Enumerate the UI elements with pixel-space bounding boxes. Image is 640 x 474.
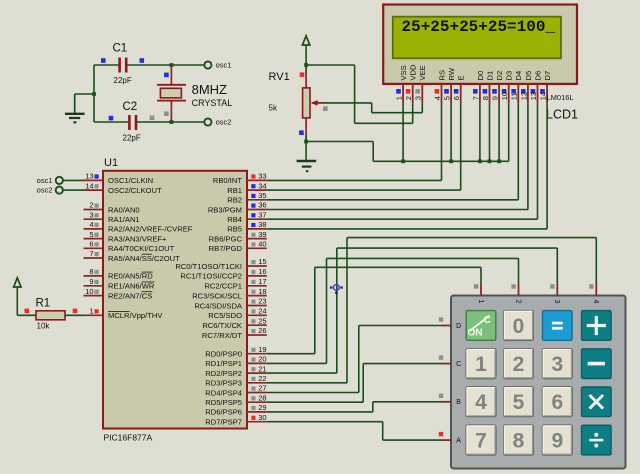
svg-text:RC6/TX/CK: RC6/TX/CK	[202, 321, 242, 330]
wire from LCD pin 14	[546, 104, 548, 229]
wire R1 to U1 pin 1 MCLR	[65, 314, 84, 316]
LCD pin 1 VSS	[395, 65, 409, 104]
svg-text:VEE: VEE	[418, 65, 427, 80]
U1 pin 36 RB3/PGM	[208, 201, 267, 215]
wire keypad col 2 to RD1	[267, 258, 519, 363]
node C1/C2 ground junction	[92, 92, 96, 96]
svg-text:D2: D2	[495, 71, 504, 81]
U1 pin 16 RC1/T1OSI/CCP2	[180, 267, 266, 281]
svg-text:B: B	[456, 399, 461, 406]
wire LCD D7 to RB5	[267, 228, 547, 230]
U1 pin 4 RA2/AN2/VREF-/CVREF	[84, 220, 193, 234]
svg-text:40: 40	[258, 240, 266, 249]
svg-text:RC4/SDI/SDA: RC4/SDI/SDA	[194, 301, 243, 310]
svg-text:15: 15	[258, 257, 266, 266]
U1 pin 7 RA5/AN4/SS/C2OUT	[84, 249, 181, 263]
U1 pin 39 RB6/PGC	[209, 230, 267, 244]
svg-text:3: 3	[89, 210, 93, 219]
svg-text:9: 9	[89, 277, 93, 286]
svg-text:LCD1: LCD1	[546, 108, 578, 122]
svg-text:5k: 5k	[269, 104, 278, 113]
wire LCD D4 to RB2	[267, 199, 519, 201]
U1 pin 13 OSC1/CLKIN	[84, 172, 154, 186]
node RV1 top junction	[304, 63, 308, 67]
svg-text:2: 2	[513, 353, 525, 376]
U1 pin 29 RD6/PSP6	[205, 403, 267, 417]
wire from LCD pin 6	[460, 104, 462, 190]
wire keypad col 1 to RD0	[267, 267, 481, 353]
svg-text:osc1: osc1	[37, 176, 53, 185]
svg-text:RB3/PGM: RB3/PGM	[208, 205, 242, 214]
svg-text:ON: ON	[468, 328, 483, 339]
power symbol +5V above RV1	[302, 36, 309, 65]
U1 pin 3 RA1/AN1	[84, 210, 140, 224]
svg-text:D6: D6	[533, 71, 542, 81]
wire from LCD pin 1	[402, 104, 404, 162]
U1 pin 6 RA4/T0CKI/C1OUT	[84, 240, 175, 254]
svg-text:R1: R1	[36, 298, 51, 310]
U1 pin 22 RD3/PSP3	[205, 374, 267, 388]
wire C1 left to junction	[94, 65, 119, 122]
svg-text:21: 21	[258, 364, 266, 373]
svg-text:7: 7	[475, 430, 487, 453]
U1 pin 23 RC4/SDI/SDA	[194, 297, 266, 311]
keypad panel	[451, 296, 626, 469]
svg-text:4: 4	[89, 220, 93, 229]
svg-text:RE2/AN7/CS: RE2/AN7/CS	[108, 291, 152, 300]
LCD pin 5 RW	[443, 67, 457, 104]
origin crosshair marker	[330, 285, 343, 294]
svg-text:C1: C1	[113, 43, 128, 55]
svg-text:27: 27	[258, 384, 266, 393]
U1 pin 38 RB5	[227, 220, 267, 234]
svg-text:24: 24	[258, 307, 266, 316]
crystal X1 8MHZ	[157, 65, 232, 122]
U1 pin 18 RC3/SCK/SCL	[192, 287, 267, 301]
wire from LCD pin 2	[412, 104, 414, 124]
U1 pin 37 RB4	[227, 210, 267, 224]
wire C2 right to osc2 terminal	[137, 121, 204, 123]
svg-text:4: 4	[475, 391, 487, 414]
U1 pin 26 RC7/RX/DT	[202, 326, 267, 340]
LCD pin 2 VDD	[404, 64, 418, 104]
svg-text:17: 17	[258, 277, 266, 286]
svg-text:37: 37	[258, 210, 266, 219]
U1 pin 5 RA3/AN3/VREF+	[84, 230, 168, 244]
svg-text:D4: D4	[514, 71, 523, 81]
keypad button 5	[504, 387, 534, 417]
svg-text:8: 8	[89, 267, 93, 276]
svg-text:0: 0	[513, 315, 525, 338]
svg-text:13: 13	[529, 92, 538, 100]
svg-text:PIC16F877A: PIC16F877A	[104, 433, 153, 443]
U1 pin 8 RE0/AN5/RD	[84, 267, 154, 281]
U1 pin 2 RA0/AN0	[84, 201, 140, 215]
svg-text:RW: RW	[447, 67, 456, 80]
svg-text:C: C	[456, 361, 461, 368]
keypad button ON/C	[466, 311, 496, 341]
svg-text:38: 38	[258, 220, 266, 229]
U1 pin 15 RC0/T1OSO/T1CKI	[175, 257, 266, 271]
svg-text:6: 6	[551, 391, 563, 414]
svg-text:osc2: osc2	[37, 186, 53, 195]
wire from LCD pin 8	[489, 104, 491, 162]
svg-text:11: 11	[510, 93, 519, 101]
wire keypad row A to RD7	[267, 422, 442, 440]
svg-text:10k: 10k	[37, 322, 51, 331]
keypad button 7	[466, 425, 496, 455]
keypad button 8	[504, 425, 534, 455]
wire keypad col 3 to RD2	[267, 248, 558, 373]
svg-text:RB6/PGC: RB6/PGC	[209, 234, 243, 243]
svg-text:RA5/AN4/SS/C2OUT: RA5/AN4/SS/C2OUT	[108, 254, 180, 263]
svg-text:13: 13	[85, 172, 93, 181]
svg-text:39: 39	[258, 230, 266, 239]
svg-text:29: 29	[258, 403, 266, 412]
svg-text:RC0/T1OSO/T1CKI: RC0/T1OSO/T1CKI	[175, 262, 242, 271]
svg-text:28: 28	[258, 393, 266, 402]
svg-text:5: 5	[443, 96, 452, 100]
LCD pin 7 D0	[471, 71, 485, 104]
svg-text:1: 1	[89, 307, 93, 316]
capacitor C1	[101, 43, 144, 86]
ground	[65, 94, 94, 122]
terminal osc2 (chip side)	[37, 186, 63, 195]
svg-text:2: 2	[89, 201, 93, 210]
svg-text:RD2/PSP2: RD2/PSP2	[205, 369, 242, 378]
keypad column pin 1	[474, 284, 484, 304]
capacitor C2	[109, 101, 155, 143]
svg-text:23: 23	[258, 297, 266, 306]
svg-text:RD1/PSP1: RD1/PSP1	[205, 359, 242, 368]
keypad button 3	[543, 349, 573, 379]
U1 pin 27 RD4/PSP4	[205, 384, 267, 398]
svg-text:36: 36	[258, 201, 266, 210]
svg-text:RS: RS	[437, 70, 446, 81]
svg-text:9: 9	[551, 430, 563, 453]
wire keypad col 4 to RD3	[267, 238, 597, 383]
svg-text:OSC2/CLKOUT: OSC2/CLKOUT	[108, 186, 162, 195]
keypad button 4	[466, 387, 496, 417]
svg-text:osc1: osc1	[216, 61, 232, 70]
svg-text:C2: C2	[123, 101, 138, 113]
svg-text:osc2: osc2	[216, 118, 232, 127]
svg-text:RE1/AN6/WR: RE1/AN6/WR	[108, 282, 155, 291]
svg-text:RC7/RX/DT: RC7/RX/DT	[202, 331, 242, 340]
svg-text:D3: D3	[505, 71, 514, 81]
LCD pin 12 D5	[519, 71, 533, 104]
svg-text:RA0/AN0: RA0/AN0	[108, 205, 140, 214]
U1 pin 25 RC6/TX/CK	[202, 316, 266, 330]
svg-text:C: C	[484, 315, 491, 326]
terminal osc2 (crystal side)	[204, 118, 231, 127]
wire C2 left	[94, 121, 129, 123]
U1 pin 28 RD5/PSP5	[205, 393, 267, 407]
U1 pin 17 RC2/CCP1	[204, 277, 266, 291]
U1 pin 14 OSC2/CLKOUT	[84, 181, 162, 195]
keypad button 6	[543, 387, 573, 417]
svg-text:8: 8	[513, 430, 525, 453]
ground under RV1	[297, 142, 317, 172]
svg-text:16: 16	[258, 267, 266, 276]
wire LCD D5 to RB3	[267, 209, 528, 211]
svg-text:10: 10	[85, 287, 93, 296]
svg-text:25+25+25+25=100_: 25+25+25+25=100_	[402, 18, 556, 36]
U1 pin 9 RE1/AN6/WR	[84, 277, 155, 291]
LCD pin 9 D2	[491, 71, 505, 104]
node crystal top junction	[170, 63, 174, 67]
resistor R1 10k	[25, 298, 78, 331]
wire keypad row D to RD4	[267, 326, 442, 393]
svg-text:RC3/SCK/SCL: RC3/SCK/SCL	[192, 291, 242, 300]
svg-text:18: 18	[258, 287, 266, 296]
svg-text:U1: U1	[104, 157, 118, 169]
svg-text:RD6/PSP6: RD6/PSP6	[205, 408, 242, 417]
power symbol +5V above R1	[14, 278, 21, 316]
svg-text:33: 33	[258, 172, 266, 181]
keypad button ×	[582, 387, 612, 417]
svg-text:CRYSTAL: CRYSTAL	[192, 98, 233, 108]
svg-text:RE0/AN5/RD: RE0/AN5/RD	[108, 272, 153, 281]
wire keypad row C to RD5	[267, 364, 442, 403]
LCD pin 11 D4	[510, 71, 524, 104]
svg-text:2: 2	[404, 96, 413, 100]
LCD LCD1 LM016L body	[383, 5, 577, 84]
svg-text:RA1/AN1: RA1/AN1	[108, 215, 140, 224]
wire osc2 terminal to U1 pin 14	[63, 189, 84, 191]
svg-text:9: 9	[491, 96, 500, 100]
U1 pin 40 RB7/PGD	[209, 240, 267, 254]
keypad button -	[582, 349, 612, 379]
svg-text:2: 2	[514, 300, 521, 304]
svg-text:D5: D5	[524, 71, 533, 81]
node RW bus junction	[449, 159, 453, 163]
svg-text:6: 6	[89, 240, 93, 249]
LCD screen	[393, 17, 561, 59]
keypad row pin A	[439, 432, 461, 445]
svg-text:RB2: RB2	[227, 196, 242, 205]
svg-text:22: 22	[258, 374, 266, 383]
wire from LCD pin 4	[441, 104, 443, 181]
keypad button 0	[504, 311, 534, 341]
svg-text:RA2/AN2/VREF-/CVREF: RA2/AN2/VREF-/CVREF	[108, 225, 193, 234]
svg-text:3: 3	[551, 353, 563, 376]
svg-text:1: 1	[475, 353, 487, 376]
svg-text:1: 1	[477, 300, 484, 304]
keypad button ÷	[582, 425, 612, 455]
keypad row pin D	[439, 317, 461, 330]
keypad button =	[543, 311, 573, 341]
svg-text:RD7/PSP7: RD7/PSP7	[205, 418, 242, 427]
svg-text:A: A	[456, 438, 461, 445]
wire C1 right to osc1 terminal	[127, 64, 204, 66]
svg-text:RA3/AN3/VREF+: RA3/AN3/VREF+	[108, 234, 167, 243]
svg-text:8: 8	[481, 96, 490, 100]
svg-text:LM016L: LM016L	[547, 93, 574, 102]
potentiometer RV1 5k	[269, 65, 328, 142]
LCD pin 10 D3	[500, 71, 513, 104]
keypad button +	[582, 311, 612, 341]
svg-text:D7: D7	[543, 71, 552, 81]
svg-text:VSS: VSS	[399, 65, 408, 80]
node D2 bus junction	[497, 159, 501, 163]
wire keypad row B to RD6	[267, 402, 442, 412]
node RV1 bottom junction	[304, 140, 308, 144]
svg-text:RD4/PSP4: RD4/PSP4	[205, 388, 242, 397]
svg-text:RB0/INT: RB0/INT	[213, 176, 242, 185]
keypad button 2	[504, 349, 534, 379]
wire from LCD pin 9	[498, 104, 500, 162]
svg-text:RA4/T0CKI/C1OUT: RA4/T0CKI/C1OUT	[108, 244, 175, 253]
LCD pin 14 D7	[539, 71, 553, 104]
keypad row pin C	[439, 355, 461, 368]
svg-text:D1: D1	[485, 71, 494, 81]
svg-text:RD0/PSP0: RD0/PSP0	[205, 350, 242, 359]
svg-text:RD5/PSP5: RD5/PSP5	[205, 398, 242, 407]
wire from LCD pin 13	[537, 104, 539, 219]
svg-text:5: 5	[89, 230, 93, 239]
svg-text:7: 7	[89, 249, 93, 258]
U1 pin 20 RD1/PSP1	[205, 355, 267, 369]
svg-text:22pF: 22pF	[114, 76, 132, 85]
node VSS bus junction	[401, 159, 405, 163]
LCD pin 4 RS	[433, 70, 447, 104]
wire ground bus to LCD VSS RW D0-D3	[306, 142, 509, 162]
wire from LCD pin 3	[421, 104, 423, 113]
svg-text:E: E	[457, 75, 466, 80]
svg-text:RC5/SDO: RC5/SDO	[208, 311, 242, 320]
svg-text:RD3/PSP3: RD3/PSP3	[205, 379, 242, 388]
svg-text:D: D	[456, 323, 461, 330]
svg-text:VDD: VDD	[409, 64, 418, 81]
svg-text:MCLR/Vpp/THV: MCLR/Vpp/THV	[108, 311, 163, 320]
wire from LCD pin 10	[508, 104, 510, 162]
keypad column pin 3	[550, 284, 560, 304]
svg-text:26: 26	[258, 326, 266, 335]
svg-text:D0: D0	[476, 71, 485, 81]
svg-text:RB4: RB4	[227, 215, 242, 224]
svg-text:RC2/CCP1: RC2/CCP1	[204, 282, 242, 291]
node D0 bus junction	[478, 159, 482, 163]
svg-text:RV1: RV1	[269, 71, 290, 83]
svg-text:7: 7	[471, 96, 480, 100]
wire from LCD pin 11	[517, 104, 519, 200]
svg-text:12: 12	[519, 92, 528, 100]
svg-text:6: 6	[452, 96, 461, 100]
svg-text:20: 20	[258, 355, 266, 364]
wire LCD RS to RB0	[267, 179, 442, 181]
wire LCD E to RB1	[267, 189, 461, 191]
PIC16F877A U1 body	[103, 171, 247, 429]
svg-text:30: 30	[258, 413, 266, 422]
U1 pin 34 RB1	[227, 181, 267, 195]
LCD pin 3 VEE	[414, 65, 428, 104]
svg-text:RC1/T1OSI/CCP2: RC1/T1OSI/CCP2	[180, 272, 242, 281]
keypad column pin 4	[589, 284, 599, 304]
svg-text:34: 34	[258, 181, 266, 190]
U1 pin 30 RD7/PSP7	[205, 413, 267, 427]
wire power to R1	[17, 314, 36, 316]
svg-text:RB5: RB5	[227, 225, 242, 234]
keypad button 1	[466, 349, 496, 379]
svg-text:8MHZ: 8MHZ	[192, 82, 227, 97]
svg-text:14: 14	[85, 181, 93, 190]
wire LCD D6 to RB4	[267, 218, 538, 220]
svg-text:22pF: 22pF	[123, 134, 141, 143]
node crystal bottom junction	[170, 120, 174, 124]
terminal osc1 (crystal side)	[204, 61, 231, 70]
U1 pin 19 RD0/PSP0	[205, 345, 267, 359]
wire from LCD pin 12	[527, 104, 529, 210]
svg-text:4: 4	[592, 300, 599, 304]
svg-text:3: 3	[414, 96, 423, 100]
svg-text:OSC1/CLKIN: OSC1/CLKIN	[108, 176, 153, 185]
svg-text:10: 10	[500, 92, 509, 100]
keypad row pin B	[439, 394, 461, 407]
U1 pin 24 RC5/SDO	[208, 307, 267, 321]
U1 pin 21 RD2/PSP2	[205, 364, 267, 378]
LCD pin 8 D1	[481, 71, 495, 104]
svg-text:RB7/PGD: RB7/PGD	[209, 244, 243, 253]
terminal osc1 (chip side)	[37, 176, 63, 185]
LCD pin 6 E	[452, 75, 466, 103]
svg-text:19: 19	[258, 345, 266, 354]
keypad button 9	[543, 425, 573, 455]
keypad column pin 2	[511, 284, 521, 304]
wire osc1 terminal to U1 pin 13	[63, 179, 84, 181]
svg-text:35: 35	[258, 191, 266, 200]
svg-text:4: 4	[433, 96, 442, 100]
U1 pin 10 RE2/AN7/CS	[84, 287, 153, 301]
svg-text:1: 1	[395, 96, 404, 100]
U1 pin 1 MCLR/Vpp/THV	[84, 307, 164, 321]
wire VEE: RV1 wiper to LCD pin 3	[326, 103, 423, 113]
wire from LCD pin 5	[450, 104, 452, 162]
node D1 bus junction	[488, 159, 492, 163]
svg-text:25: 25	[258, 316, 266, 325]
svg-text:5: 5	[513, 391, 525, 414]
wire from LCD pin 7	[479, 104, 481, 162]
svg-text:3: 3	[553, 300, 560, 304]
svg-text:RB1: RB1	[227, 186, 242, 195]
U1 pin 33 RB0/INT	[213, 172, 267, 186]
LCD pin 13 D6	[529, 71, 543, 104]
wire VDD: RV1 top to LCD pin 2	[306, 65, 413, 123]
U1 pin 35 RB2	[227, 191, 267, 205]
